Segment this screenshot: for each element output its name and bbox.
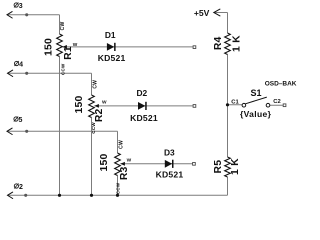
svg-text:R2: R2	[94, 108, 105, 122]
svg-text:S1: S1	[250, 88, 261, 98]
svg-text:3: 3	[19, 3, 23, 10]
svg-text:CCW: CCW	[91, 122, 96, 134]
svg-text:KD521: KD521	[156, 170, 184, 180]
svg-text:C2: C2	[273, 99, 280, 105]
svg-text:R4: R4	[213, 36, 224, 50]
svg-text:W: W	[102, 99, 107, 105]
svg-text:2: 2	[19, 184, 23, 191]
svg-text:5: 5	[19, 117, 23, 124]
svg-text:OSD–BAK: OSD–BAK	[265, 80, 297, 87]
svg-text:D3: D3	[164, 148, 175, 158]
svg-text:CW: CW	[93, 80, 99, 89]
svg-text:150: 150	[99, 154, 110, 172]
svg-text:KD521: KD521	[130, 113, 158, 123]
svg-text:KD521: KD521	[98, 53, 126, 63]
svg-text:4: 4	[19, 62, 23, 69]
svg-text:1 K: 1 K	[230, 158, 241, 175]
svg-text:150: 150	[44, 38, 55, 56]
svg-text:W: W	[127, 157, 132, 163]
svg-text:CW: CW	[60, 22, 66, 31]
svg-text:D1: D1	[105, 30, 116, 40]
svg-text:1 K: 1 K	[231, 35, 242, 52]
svg-text:W: W	[73, 42, 78, 48]
svg-text:{Value}: {Value}	[240, 109, 272, 119]
svg-text:CW: CW	[119, 140, 125, 149]
svg-text:CCW: CCW	[60, 63, 65, 75]
svg-text:CCW: CCW	[115, 182, 120, 194]
svg-text:150: 150	[74, 96, 85, 114]
svg-text:R5: R5	[213, 160, 224, 174]
svg-text:R3: R3	[119, 166, 130, 180]
svg-text:+5V: +5V	[194, 8, 210, 18]
svg-text:D2: D2	[136, 88, 147, 98]
svg-text:C1: C1	[231, 100, 239, 106]
